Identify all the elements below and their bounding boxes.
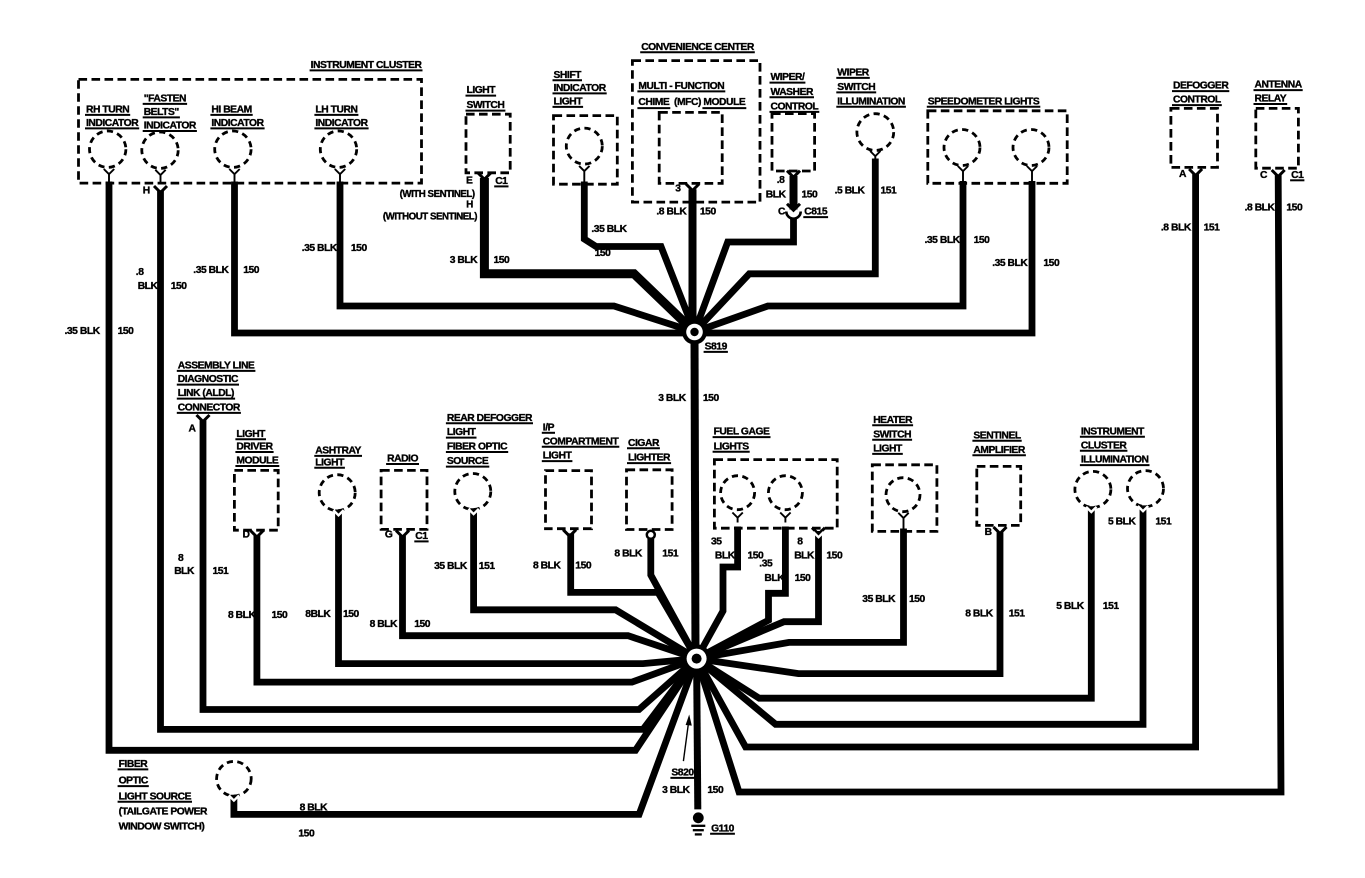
- cigar lighter: [627, 438, 673, 539]
- svg-text:150: 150: [118, 326, 135, 337]
- instrument cluster illumination: [1080, 426, 1150, 465]
- svg-text:FIBER: FIBER: [119, 759, 149, 770]
- wire speedometer lamp 2 to S819: [695, 181, 1033, 333]
- svg-text:LIGHTER: LIGHTER: [628, 453, 671, 464]
- lamp cluster illumination 1: [1075, 471, 1111, 507]
- wire cluster illumination 1 to S820: [697, 506, 1097, 698]
- svg-text:150: 150: [595, 248, 612, 259]
- svg-text:LIGHT: LIGHT: [543, 451, 573, 462]
- svg-text:.5 BLK: .5 BLK: [835, 186, 866, 197]
- wire light driver to S820: [257, 536, 697, 682]
- radio: [381, 454, 429, 542]
- svg-text:.8: .8: [136, 267, 144, 278]
- label 35 BLK 150 on heater wire: [862, 594, 925, 605]
- lamp RH turn indicator: [85, 105, 139, 183]
- svg-text:3: 3: [675, 184, 681, 195]
- svg-text:150: 150: [575, 560, 592, 571]
- wire sentinel to S820: [697, 532, 1000, 673]
- svg-text:CONNECTOR: CONNECTOR: [178, 403, 241, 414]
- label .8 BLK 150 on MFC wire: [656, 207, 716, 218]
- svg-text:5 BLK: 5 BLK: [1108, 517, 1137, 528]
- wire defogger control to S820: [697, 174, 1196, 747]
- svg-text:150: 150: [802, 189, 819, 200]
- svg-text:150: 150: [494, 255, 511, 266]
- label .35 BLK 150 on speedometer wire 2: [992, 258, 1060, 269]
- lamp hi beam indicator: [210, 105, 264, 183]
- svg-text:150: 150: [343, 609, 360, 620]
- svg-text:8 BLK: 8 BLK: [965, 608, 994, 619]
- svg-text:151: 151: [479, 561, 496, 572]
- defogger control: [1171, 81, 1229, 180]
- svg-text:RELAY: RELAY: [1255, 94, 1287, 105]
- svg-text:G: G: [385, 530, 393, 541]
- label .8 BLK 151 on defogger wire: [1161, 222, 1220, 233]
- svg-text:CONTROL: CONTROL: [1173, 95, 1221, 106]
- wire fasten belts to S820: [161, 190, 697, 729]
- svg-text:150: 150: [826, 551, 843, 562]
- svg-text:151: 151: [1103, 601, 1120, 612]
- svg-text:151: 151: [1009, 608, 1026, 619]
- svg-text:A: A: [189, 424, 197, 435]
- svg-text:LIGHT: LIGHT: [447, 427, 477, 438]
- svg-text:150: 150: [1043, 258, 1060, 269]
- label .35 BLK 150 on LH turn wire: [302, 243, 368, 254]
- lamp cluster illumination 2: [1128, 471, 1164, 507]
- wire RH turn indicator to S820: [109, 182, 697, 751]
- label 8 BLK 151 on sentinel wire: [965, 608, 1025, 619]
- svg-text:ANTENNA: ANTENNA: [1255, 80, 1303, 91]
- svg-text:LINK (ALDL): LINK (ALDL): [178, 388, 234, 399]
- svg-text:3 BLK: 3 BLK: [662, 785, 691, 796]
- pin H of fasten belts: [143, 185, 167, 196]
- svg-text:C1: C1: [1291, 170, 1304, 181]
- label .35 BLK 150 on RH turn wire: [65, 326, 135, 337]
- note with/without sentinel: [383, 189, 477, 222]
- svg-text:"FASTEN: "FASTEN: [144, 94, 186, 105]
- lamp speedometer 2: [1013, 130, 1049, 183]
- svg-text:S819: S819: [705, 342, 728, 353]
- svg-text:35 BLK: 35 BLK: [862, 594, 896, 605]
- svg-text:LIGHT: LIGHT: [315, 457, 345, 468]
- ground G110: [691, 812, 735, 834]
- lamp speedometer 1: [944, 130, 980, 183]
- wire light switch to S819: [484, 178, 694, 332]
- svg-text:LIGHT SOURCE: LIGHT SOURCE: [119, 791, 192, 802]
- svg-text:INDICATOR: INDICATOR: [86, 118, 139, 129]
- svg-text:MULTI - FUNCTION: MULTI - FUNCTION: [638, 81, 724, 92]
- svg-text:151: 151: [662, 548, 679, 559]
- svg-text:LIGHTS: LIGHTS: [714, 441, 750, 452]
- svg-text:C: C: [1260, 170, 1268, 181]
- wire rear defogger to S820: [468, 508, 696, 658]
- svg-text:CLUSTER: CLUSTER: [1081, 440, 1127, 451]
- svg-text:150: 150: [703, 393, 720, 404]
- label .35 BLK 150 on speedometer wire 1: [925, 235, 991, 246]
- svg-text:ILLUMINATION: ILLUMINATION: [1081, 455, 1149, 466]
- svg-text:CONVENIENCE CENTER: CONVENIENCE CENTER: [641, 42, 755, 53]
- svg-text:.35 BLK: .35 BLK: [992, 258, 1028, 269]
- arrow from S820 label to splice: [683, 715, 691, 762]
- wire cluster illumination 2 to S820: [697, 505, 1149, 724]
- wire shift indicator to S819: [584, 182, 694, 333]
- wire radio to S820: [403, 536, 697, 659]
- svg-text:SHIFT: SHIFT: [554, 70, 583, 81]
- svg-text:I/P: I/P: [543, 422, 555, 433]
- svg-text:SWITCH: SWITCH: [873, 429, 911, 440]
- svg-text:DEFOGGER: DEFOGGER: [1173, 81, 1229, 92]
- rear defogger light fiber optic source: [446, 413, 533, 510]
- svg-text:3 BLK: 3 BLK: [450, 255, 479, 266]
- svg-text:8: 8: [797, 537, 803, 548]
- svg-text:ASSEMBLY LINE: ASSEMBLY LINE: [178, 361, 255, 372]
- fiber optic light source (tailgate power window switch): [118, 759, 252, 832]
- svg-text:CIGAR: CIGAR: [628, 438, 660, 449]
- wire I/P compartment to S820: [571, 533, 697, 658]
- lamp wiper switch illumination: [836, 68, 906, 161]
- svg-text:INDICATOR: INDICATOR: [144, 121, 197, 132]
- svg-text:8 BLK: 8 BLK: [228, 610, 257, 621]
- ALDL connector: [177, 361, 256, 435]
- instrument cluster box: [79, 60, 423, 183]
- svg-text:.8 BLK: .8 BLK: [656, 207, 687, 218]
- wire wiper illumination to S819: [695, 159, 876, 333]
- svg-text:CHIME (MFC) MODULE: CHIME (MFC) MODULE: [638, 97, 745, 108]
- label 8 BLK 151 on cigar lighter wire: [614, 548, 678, 559]
- convenience center box: [632, 42, 760, 202]
- svg-text:D: D: [243, 530, 250, 541]
- svg-text:.35 BLK: .35 BLK: [193, 265, 229, 276]
- label 8 BLK 151 on ALDL wire: [174, 553, 229, 577]
- svg-text:8 BLK: 8 BLK: [614, 548, 643, 559]
- svg-text:RADIO: RADIO: [387, 454, 418, 465]
- svg-text:150: 150: [707, 785, 724, 796]
- svg-text:SENTINEL: SENTINEL: [973, 430, 1020, 441]
- wire speedometer lamp 1 to S819: [695, 181, 964, 332]
- svg-text:HI BEAM: HI BEAM: [211, 105, 251, 116]
- svg-text:C815: C815: [804, 207, 828, 218]
- svg-text:WASHER: WASHER: [771, 87, 815, 98]
- svg-text:151: 151: [1204, 222, 1221, 233]
- I/P compartment light: [542, 422, 620, 536]
- svg-text:(TAILGATE POWER: (TAILGATE POWER: [119, 806, 208, 817]
- svg-text:G110: G110: [711, 823, 735, 834]
- connector C815: [778, 204, 828, 219]
- svg-text:INDICATOR: INDICATOR: [554, 83, 607, 94]
- svg-text:ILLUMINATION: ILLUMINATION: [837, 96, 905, 107]
- svg-text:(WITHOUT SENTINEL): (WITHOUT SENTINEL): [383, 212, 477, 223]
- label 8BLK 150 on ashtray wire: [305, 609, 359, 620]
- label 35 BLK 151 on rear defogger wire: [434, 561, 495, 572]
- wire fuel gage lamp 2 to S820: [697, 527, 786, 659]
- wire wiper/washer to S819: [695, 176, 794, 332]
- splice S819: [682, 320, 728, 353]
- label 3 BLK 150 on light switch wire: [450, 255, 510, 266]
- svg-text:150: 150: [1286, 202, 1303, 213]
- label 8 BLK 150 on light driver wire: [228, 610, 288, 621]
- splice S820: [670, 644, 710, 778]
- wire heater switch to S820: [697, 529, 904, 659]
- wiper/washer control: [770, 72, 820, 177]
- svg-text:BLK: BLK: [794, 551, 815, 562]
- svg-text:C1: C1: [495, 176, 508, 187]
- svg-text:.35 BLK: .35 BLK: [302, 243, 338, 254]
- lamp LH turn indicator: [314, 105, 368, 183]
- label .8 BLK 150 on wiper/washer wire: [766, 175, 818, 201]
- svg-text:LH TURN: LH TURN: [315, 105, 357, 116]
- svg-text:LIGHT: LIGHT: [467, 85, 497, 96]
- label 3 BLK 150 on S819-S820 wire: [658, 393, 719, 404]
- label .8 BLK 150 on fasten belts wire: [136, 267, 187, 292]
- label 5 BLK 151 on illumination wire 2: [1108, 517, 1172, 528]
- svg-text:151: 151: [881, 186, 898, 197]
- wire MFC pin 3 to S819: [693, 189, 695, 332]
- lamp fuel gage 2: [768, 476, 802, 523]
- svg-text:A: A: [1179, 169, 1187, 180]
- light driver module: [234, 429, 279, 541]
- svg-text:OPTIC: OPTIC: [119, 776, 149, 787]
- svg-text:BLK: BLK: [764, 573, 785, 584]
- svg-text:LIGHT: LIGHT: [873, 444, 903, 455]
- svg-text:SWITCH: SWITCH: [837, 82, 875, 93]
- wire S820 to ground G110: [697, 659, 698, 810]
- svg-text:BLK: BLK: [766, 189, 787, 200]
- heater switch light: [872, 415, 937, 531]
- label .35 BLK 150 on shift indicator wire: [591, 224, 627, 259]
- multi-function chime (MFC) module: [637, 81, 746, 195]
- wire fiber optic source to S820: [229, 659, 697, 815]
- svg-text:WINDOW SWITCH): WINDOW SWITCH): [119, 821, 205, 832]
- label .5 BLK 151 on wiper illumination wire: [835, 186, 897, 197]
- svg-text:150: 150: [414, 619, 431, 630]
- wire fuel gage feed to S820: [697, 531, 824, 659]
- svg-text:151: 151: [213, 566, 230, 577]
- fuel gage lights box: [713, 427, 838, 529]
- wire LH turn to S819: [340, 182, 695, 333]
- svg-text:AMPLIFIER: AMPLIFIER: [973, 445, 1025, 456]
- wire ashtray to S820: [333, 510, 696, 664]
- svg-text:FUEL GAGE: FUEL GAGE: [714, 427, 770, 438]
- svg-text:SOURCE: SOURCE: [447, 456, 489, 467]
- svg-text:35: 35: [711, 537, 722, 548]
- svg-text:REAR DEFOGGER: REAR DEFOGGER: [447, 413, 533, 424]
- svg-text:150: 150: [795, 573, 812, 584]
- wire cigar lighter to S820: [651, 539, 697, 659]
- svg-text:151: 151: [1155, 517, 1172, 528]
- svg-text:(WITH SENTINEL): (WITH SENTINEL): [400, 189, 475, 200]
- lamp fuel gage 1: [721, 476, 755, 523]
- svg-text:BLK: BLK: [174, 566, 195, 577]
- svg-text:S820: S820: [671, 768, 694, 779]
- svg-text:MODULE: MODULE: [236, 456, 278, 467]
- svg-text:150: 150: [298, 829, 315, 840]
- svg-text:B: B: [985, 527, 992, 538]
- svg-text:BLK: BLK: [138, 281, 159, 292]
- svg-text:.35 BLK: .35 BLK: [591, 224, 627, 235]
- svg-text:BELTS": BELTS": [144, 107, 180, 118]
- svg-text:150: 150: [351, 243, 368, 254]
- svg-text:150: 150: [974, 235, 991, 246]
- wire antenna relay to S820: [697, 175, 1281, 792]
- svg-text:35 BLK: 35 BLK: [434, 561, 468, 572]
- label .35 BLK 150 on hi beam wire: [193, 265, 259, 276]
- svg-text:8 BLK: 8 BLK: [370, 619, 399, 630]
- label 8 BLK 150 on radio wire: [370, 619, 431, 630]
- label 8 BLK 150 on fuel feed wire: [794, 537, 843, 562]
- svg-text:WIPER: WIPER: [837, 68, 870, 79]
- svg-text:FIBER OPTIC: FIBER OPTIC: [447, 442, 508, 453]
- svg-text:LIGHT: LIGHT: [236, 429, 266, 440]
- ashtray light: [314, 446, 362, 511]
- speedometer lights box: [927, 96, 1067, 183]
- svg-text:HEATER: HEATER: [873, 415, 913, 426]
- sentinel amplifier: [972, 430, 1026, 538]
- svg-text:.35: .35: [759, 558, 773, 569]
- svg-text:150: 150: [243, 265, 260, 276]
- svg-text:150: 150: [272, 610, 289, 621]
- svg-text:.8 BLK: .8 BLK: [1245, 202, 1276, 213]
- wire ALDL to S820: [203, 420, 697, 709]
- svg-text:.8 BLK: .8 BLK: [1161, 222, 1192, 233]
- svg-text:.35 BLK: .35 BLK: [925, 235, 961, 246]
- label 5 BLK 151 on illumination wire 1: [1056, 601, 1119, 612]
- svg-text:CONTROL: CONTROL: [771, 102, 819, 113]
- svg-text:H: H: [143, 185, 150, 196]
- svg-text:BLK: BLK: [715, 551, 736, 562]
- light switch: [466, 85, 511, 187]
- label 8 BLK 150 on I/P wire: [533, 560, 592, 571]
- svg-text:.35 BLK: .35 BLK: [65, 326, 101, 337]
- svg-text:LIGHT: LIGHT: [554, 97, 584, 108]
- pin on fuel gage box (feed): [812, 528, 825, 535]
- svg-text:SWITCH: SWITCH: [467, 100, 505, 111]
- svg-text:INSTRUMENT: INSTRUMENT: [1081, 426, 1145, 437]
- svg-text:RH TURN: RH TURN: [86, 105, 129, 116]
- svg-text:8: 8: [178, 553, 184, 564]
- svg-text:WIPER/: WIPER/: [771, 72, 806, 83]
- svg-text:INDICATOR: INDICATOR: [315, 118, 368, 129]
- svg-text:SPEEDOMETER LIGHTS: SPEEDOMETER LIGHTS: [928, 96, 1040, 107]
- svg-text:150: 150: [909, 594, 926, 605]
- svg-text:INSTRUMENT CLUSTER: INSTRUMENT CLUSTER: [311, 60, 423, 71]
- svg-text:INDICATOR: INDICATOR: [211, 118, 264, 129]
- svg-text:DIAGNOSTIC: DIAGNOSTIC: [178, 374, 239, 385]
- svg-text:8 BLK: 8 BLK: [300, 803, 329, 814]
- svg-text:150: 150: [171, 281, 188, 292]
- svg-text:8 BLK: 8 BLK: [533, 560, 562, 571]
- svg-text:C1: C1: [415, 531, 428, 542]
- svg-text:5 BLK: 5 BLK: [1056, 601, 1085, 612]
- wire hi beam to S819: [235, 182, 695, 334]
- label 8 BLK 150 on fiber optic wire: [298, 803, 328, 840]
- svg-text:H: H: [466, 200, 473, 211]
- lamp fasten belts indicator: [142, 94, 197, 183]
- svg-text:DRIVER: DRIVER: [236, 442, 273, 453]
- svg-text:.8: .8: [777, 175, 785, 186]
- wire fuel gage lamp 1 to S820: [697, 527, 738, 659]
- svg-text:C: C: [778, 207, 786, 218]
- svg-text:8BLK: 8BLK: [305, 609, 331, 620]
- svg-text:COMPARTMENT: COMPARTMENT: [543, 436, 620, 447]
- svg-text:150: 150: [700, 207, 717, 218]
- label .8 BLK 150 on antenna wire: [1245, 202, 1303, 213]
- svg-text:ASHTRAY: ASHTRAY: [315, 446, 361, 457]
- svg-text:3 BLK: 3 BLK: [658, 393, 687, 404]
- label 3 BLK 150 on ground wire: [662, 785, 724, 796]
- shift indicator light: [553, 70, 618, 184]
- svg-text:E: E: [466, 175, 473, 186]
- antenna relay: [1254, 80, 1305, 181]
- label .35 BLK 150 on fuel wire 2: [759, 558, 811, 584]
- wire S819 to S820 (3 BLK 150): [695, 332, 696, 659]
- label 35 BLK 150 on fuel wire 1: [711, 537, 764, 562]
